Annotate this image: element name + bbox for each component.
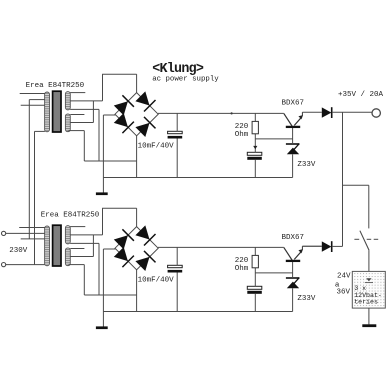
svg-text:36V: 36V — [337, 289, 351, 297]
svg-text:230V: 230V — [9, 247, 28, 255]
svg-text:10mF/40V: 10mF/40V — [138, 143, 175, 151]
svg-text:BDX67: BDX67 — [282, 99, 305, 107]
svg-text:3 x: 3 x — [354, 285, 366, 292]
svg-text:Erea E84TR250: Erea E84TR250 — [41, 212, 100, 220]
svg-text:BDX67: BDX67 — [282, 234, 305, 242]
svg-text:ac power supply: ac power supply — [152, 76, 219, 84]
svg-text:Z33V: Z33V — [297, 161, 316, 169]
svg-text:Ohm: Ohm — [235, 265, 249, 273]
svg-text:Erea E84TR250: Erea E84TR250 — [26, 82, 85, 90]
svg-text:Z33V: Z33V — [297, 295, 316, 303]
svg-text:+35V / 20A: +35V / 20A — [338, 91, 384, 99]
svg-text:teries: teries — [354, 299, 378, 306]
svg-text:Ohm: Ohm — [235, 131, 249, 139]
svg-text:10mF/40V: 10mF/40V — [138, 277, 175, 285]
svg-text:24V: 24V — [337, 272, 351, 280]
svg-text:220: 220 — [235, 257, 249, 265]
svg-text:220: 220 — [235, 123, 249, 131]
